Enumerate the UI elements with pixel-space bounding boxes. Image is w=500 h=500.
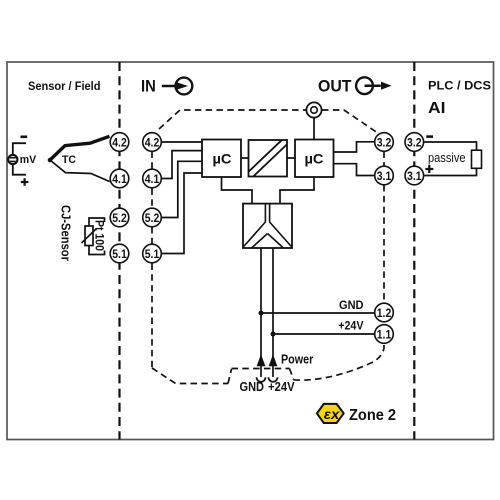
svg-text:Power: Power [281,352,313,366]
svg-text:passive: passive [428,151,466,165]
svg-text:µC: µC [305,151,324,167]
svg-text:+24V: +24V [268,380,295,394]
svg-text:3.1: 3.1 [407,169,422,183]
svg-text:IN: IN [141,78,156,96]
svg-text:1.1: 1.1 [377,327,392,341]
svg-text:4.2: 4.2 [112,135,127,149]
svg-text:εx: εx [324,407,340,422]
svg-text:CJ-Sensor: CJ-Sensor [59,205,73,261]
svg-text:3.1: 3.1 [377,169,392,183]
svg-text:5.1: 5.1 [112,247,127,261]
svg-text:AI: AI [428,100,446,117]
svg-text:5.2: 5.2 [112,211,127,225]
svg-text:GND: GND [339,298,364,312]
svg-text:3.2: 3.2 [377,135,392,149]
svg-text:1.2: 1.2 [377,306,392,320]
svg-text:4.1: 4.1 [112,172,127,186]
svg-text:Zone 2: Zone 2 [349,407,396,424]
svg-text:Pt 100: Pt 100 [93,220,105,251]
svg-text:PLC / DCS: PLC / DCS [428,79,491,93]
svg-text:5.1: 5.1 [145,247,160,261]
svg-text:3.2: 3.2 [407,135,422,149]
svg-text:mV: mV [20,154,37,166]
svg-text:4.1: 4.1 [145,172,160,186]
svg-text:Sensor / Field: Sensor / Field [28,79,101,93]
svg-text:4.2: 4.2 [145,135,160,149]
svg-text:OUT: OUT [318,78,352,96]
svg-text:+24V: +24V [338,319,364,333]
svg-text:5.2: 5.2 [145,211,160,225]
svg-text:TC: TC [62,154,76,166]
svg-text:µC: µC [213,151,232,167]
svg-text:GND: GND [240,380,265,394]
